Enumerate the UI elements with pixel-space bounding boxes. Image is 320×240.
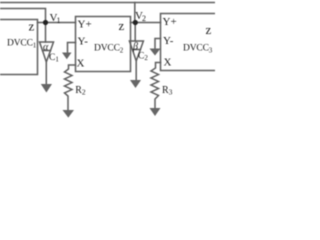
svg-text:X: X [164,57,172,69]
svg-text:C2: C2 [138,52,148,63]
svg-text:DVCC1: DVCC1 [7,39,37,50]
svg-text:V1: V1 [50,12,61,25]
svg-text:Y+: Y+ [78,19,92,31]
svg-text:Y+: Y+ [163,16,177,28]
svg-text:V2: V2 [135,10,146,23]
svg-text:Y-: Y- [163,35,174,47]
svg-text:R2: R2 [75,85,86,97]
svg-text:z: z [206,22,212,37]
svg-text:z: z [119,18,125,33]
svg-text:α: α [43,42,49,53]
svg-text:z: z [29,19,35,34]
svg-text:Y-: Y- [78,36,89,48]
svg-text:C1: C1 [49,53,59,64]
svg-text:X: X [77,58,85,70]
svg-text:DVCC3: DVCC3 [183,44,213,55]
svg-text:R3: R3 [162,85,173,97]
svg-text:DVCC2: DVCC2 [94,44,124,55]
